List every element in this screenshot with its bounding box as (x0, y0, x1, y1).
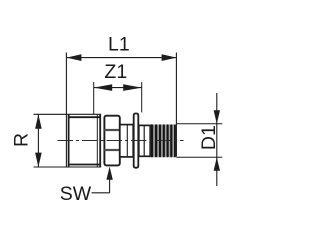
D1 arrow bottom (points up) (214, 157, 220, 171)
svg-text:L1: L1 (108, 34, 130, 56)
rib barb 5 (167, 124, 169, 157)
Z1 arrow right (123, 84, 142, 91)
Z1 dimension line (94, 87, 142, 89)
L1 dimension line (66, 57, 176, 59)
R dimension line (37, 114, 39, 167)
thread crest line top (merged with R extension line) (34, 113, 102, 115)
SW leader vertical (109, 170, 111, 193)
rib barb 2 (155, 124, 157, 157)
R arrow up (35, 114, 42, 129)
SW arrow (106, 167, 112, 180)
neck groove edge (126, 125, 128, 156)
svg-text:D1: D1 (198, 125, 220, 150)
press sleeve edge line (143, 126, 145, 157)
rib zone background (150, 124, 176, 157)
svg-text:Z1: Z1 (104, 61, 127, 83)
L1 arrow right (162, 54, 177, 61)
rib barb 3 (159, 124, 161, 157)
SW leader horizontal (92, 192, 110, 194)
neck cylinder between hex and collar (120, 125, 133, 157)
thread runout line (96, 115, 98, 167)
thread root line top (68, 116, 101, 118)
D1 bottom extension line (176, 156, 222, 158)
collar flange (134, 114, 139, 168)
press-end neck (139, 125, 150, 156)
rib barb 1 (150, 124, 153, 157)
L1 right extension line (continues to pipe end) (175, 53, 177, 157)
Z1 right extension line (141, 82, 143, 112)
D1 arrow top (points down) (214, 110, 220, 124)
thread left end edge (merged with L1 extension line) (65, 53, 67, 168)
rib barb 4 (163, 124, 165, 157)
hex nut body (104, 116, 119, 166)
thread root line bottom (68, 164, 101, 166)
hex flat edge top (104, 129, 120, 131)
Z1 left extension line (93, 82, 95, 114)
rib barb 6 (170, 124, 172, 157)
svg-text:SW: SW (60, 183, 92, 205)
thread right shoulder edge (99, 114, 101, 167)
thread crest line bottom (merged with R extension line) (34, 166, 102, 168)
Z1 arrow left (94, 84, 113, 91)
D1 dimension line (216, 93, 218, 186)
L1 arrow left (66, 54, 81, 61)
hex flat edge bottom (104, 149, 120, 151)
thread chamfer edge (68, 114, 70, 167)
rib barb 7 / pipe end edge (174, 124, 176, 157)
centerline (dash-dot axis) (58, 139, 184, 141)
D1 top extension line (176, 123, 222, 125)
R arrow down (35, 153, 42, 167)
svg-text:R: R (11, 133, 33, 147)
